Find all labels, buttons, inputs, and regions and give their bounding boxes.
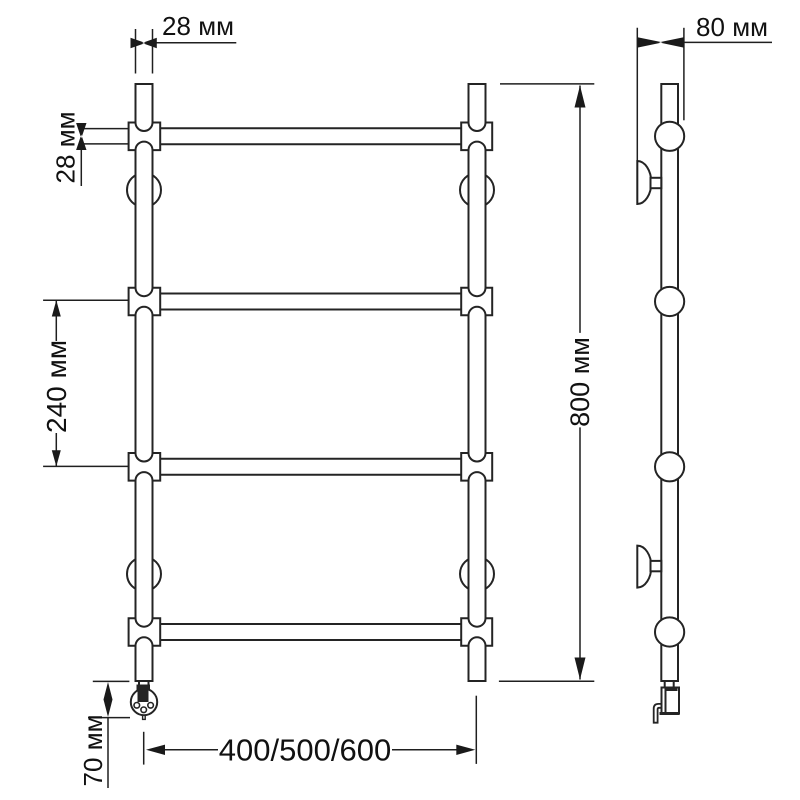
- side knob 3: [655, 452, 684, 481]
- svg-text:240 мм: 240 мм: [41, 340, 72, 433]
- dim 800mm ext line bottom: [499, 680, 594, 682]
- svg-text:400/500/600: 400/500/600: [219, 733, 391, 768]
- dim 800mm arrow up: [575, 86, 586, 108]
- dim 80mm line: [684, 41, 772, 43]
- dim 28mm top ext line left: [135, 29, 137, 74]
- dim 240mm ext line top: [43, 299, 129, 301]
- plug collar front: [138, 686, 150, 690]
- dim 28mm left bowtie arrows: [76, 123, 86, 150]
- dim 28mm left stub: [80, 150, 82, 186]
- dim width ext line left: [143, 732, 145, 765]
- dim 80mm ext line left: [636, 28, 638, 204]
- svg-text:28 мм: 28 мм: [51, 112, 81, 184]
- dim 240mm arrow down: [52, 450, 61, 466]
- dim 28mm left ext line bottom: [81, 143, 129, 145]
- wall stem side top: [651, 178, 662, 188]
- rung 3: [160, 459, 461, 475]
- svg-text:800 мм: 800 мм: [565, 337, 595, 427]
- right post: [469, 84, 486, 681]
- side knob 2: [655, 287, 684, 316]
- dim 70mm stub: [107, 718, 109, 788]
- bracket L3: [129, 453, 161, 481]
- dim width arrow right: [456, 745, 475, 755]
- dim 28mm top line: [157, 42, 237, 44]
- bracket L2: [129, 288, 161, 316]
- dim 70mm ext line top: [93, 680, 130, 682]
- bracket L4: [129, 618, 161, 646]
- wall disc side bottom: [637, 546, 651, 588]
- dim 800mm arrow down: [575, 658, 586, 680]
- wall disc side top: [637, 161, 651, 204]
- dim width ext line right: [475, 696, 477, 764]
- dim width line right: [392, 749, 458, 751]
- dim 240mm arrow up: [52, 300, 61, 316]
- mount circle front top-left: [127, 173, 161, 207]
- dim 80mm ext line right: [683, 28, 685, 121]
- dim 240mm ext line bottom: [43, 465, 129, 467]
- dim 28mm top ext line right: [152, 29, 154, 74]
- bracket R1: [461, 123, 492, 151]
- rung 2: [160, 294, 461, 310]
- mount circle front bottom-left: [127, 557, 161, 591]
- dim 800mm ext line top: [500, 83, 594, 85]
- dim 70mm diamond arrow: [104, 682, 113, 717]
- bracket R4: [461, 618, 492, 646]
- plug pin right: [148, 703, 154, 709]
- dim 240mm line: [55, 300, 57, 466]
- dim 28mm left ext line top: [81, 128, 129, 130]
- dim 70mm ext line bottom: [88, 717, 130, 719]
- bracket R2: [461, 288, 492, 316]
- wall stem side bottom: [651, 561, 662, 571]
- plug pin left: [134, 703, 140, 709]
- mount circle front top-right: [460, 173, 494, 207]
- bracket R3: [461, 453, 492, 481]
- dim 80mm bowtie arrows: [638, 37, 684, 47]
- dim 28mm top bowtie arrows: [131, 38, 157, 49]
- side plug stub: [665, 681, 674, 688]
- svg-text:80 мм: 80 мм: [696, 12, 768, 42]
- side post: [661, 84, 678, 681]
- dim width line left: [163, 749, 218, 751]
- plug pin bottom: [141, 707, 147, 713]
- plug stub front: [139, 681, 149, 687]
- plug face circle: [131, 689, 157, 715]
- side knob 1: [655, 122, 684, 151]
- dim 800mm line: [579, 86, 581, 680]
- side plug box: [660, 688, 680, 714]
- left post: [136, 84, 153, 681]
- mount circle front bottom-right: [460, 557, 494, 591]
- rung 1: [160, 128, 461, 144]
- rung 4: [160, 624, 461, 640]
- plug body black: [138, 690, 149, 703]
- svg-text:70 мм: 70 мм: [78, 715, 108, 787]
- plug lower pin: [143, 715, 146, 719]
- dim width arrow left: [146, 745, 165, 755]
- side plug hook: [654, 704, 662, 723]
- bracket L1: [129, 123, 161, 151]
- svg-text:28 мм: 28 мм: [162, 11, 234, 41]
- side knob 4: [655, 617, 684, 646]
